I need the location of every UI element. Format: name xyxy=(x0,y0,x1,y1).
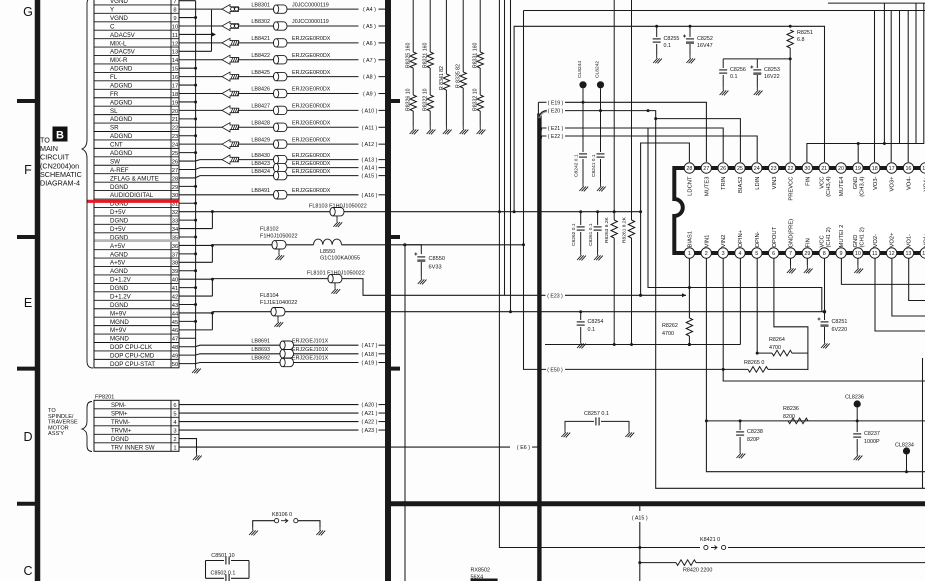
svg-text:G: G xyxy=(23,5,33,19)
ground (C8253) xyxy=(754,87,763,95)
svg-text:LB8693: LB8693 xyxy=(251,347,270,353)
svg-text:C8257 0.1: C8257 0.1 xyxy=(584,411,609,417)
ground (C8550) xyxy=(418,276,427,284)
svg-text:18: 18 xyxy=(172,92,178,98)
wire M+9V feeder from top xyxy=(509,0,512,313)
svg-text:0.1: 0.1 xyxy=(664,43,672,49)
resistor R8331 xyxy=(473,0,484,68)
ground (C8261) xyxy=(594,252,603,260)
svg-text:BIAS2: BIAS2 xyxy=(738,177,744,193)
ground (R8335) xyxy=(460,126,469,134)
svg-text:(CH1 2): (CH1 2) xyxy=(826,227,832,247)
svg-text:DGND: DGND xyxy=(110,285,129,292)
svg-text:42: 42 xyxy=(172,294,178,300)
svg-text:41: 41 xyxy=(172,286,178,292)
svg-text:VGND: VGND xyxy=(110,15,128,22)
svg-text:R8322 10: R8322 10 xyxy=(423,88,429,111)
svg-text:SL: SL xyxy=(110,108,118,115)
U8201 pin 10 (GND (CH1 2)) xyxy=(853,227,866,258)
ground (C8262) xyxy=(577,252,586,260)
wire FP8201 pin 4 to node A22 xyxy=(179,420,388,426)
svg-text:( A20 ): ( A20 ) xyxy=(362,403,378,409)
svg-text:8200: 8200 xyxy=(783,414,795,420)
wire pin 1 riser / R8262 branch xyxy=(688,258,690,318)
svg-text:TRVM+: TRVM+ xyxy=(111,428,132,434)
svg-text:16V22: 16V22 xyxy=(764,74,780,80)
U8201 pin 14 (VO1+) xyxy=(920,232,925,258)
ground (C8254) xyxy=(577,340,586,348)
svg-text:DGND: DGND xyxy=(110,302,129,309)
svg-text:R8321 160: R8321 160 xyxy=(423,43,429,68)
node A9 xyxy=(363,92,388,98)
ground (R8326) xyxy=(410,126,419,134)
svg-text:C8251: C8251 xyxy=(832,319,848,325)
U8201 pin 19 (GND (CH3,4)) xyxy=(853,163,866,197)
filter FL8104 xyxy=(212,293,510,327)
wire pin 5 riser xyxy=(756,258,759,354)
svg-text:4700: 4700 xyxy=(662,331,674,337)
node A18 xyxy=(362,352,388,358)
ferrite bead LB8301 xyxy=(179,2,359,13)
resistor R8325 xyxy=(406,0,417,68)
node A19 xyxy=(362,361,388,367)
filter FL8101 xyxy=(212,271,545,296)
wire FP8201 pin 3 to node A23 xyxy=(179,428,388,434)
wire power pair pins 32,34 xyxy=(179,210,214,228)
ground (C8237) xyxy=(854,452,863,460)
wire E20 branch loop xyxy=(648,128,822,312)
node A10 xyxy=(362,108,388,114)
net label A15 vertical xyxy=(632,504,648,581)
wire riser pin 16 xyxy=(907,11,909,163)
ferrite bead LB8430 xyxy=(179,153,359,164)
svg-text:TRIN: TRIN xyxy=(721,177,727,191)
svg-text:2: 2 xyxy=(173,437,176,443)
ground (K8106 left) xyxy=(249,527,258,535)
svg-text:LB8302: LB8302 xyxy=(251,19,270,25)
U8201 pin 20 (MUTE4) xyxy=(836,163,846,196)
svg-text:ERJ2GE0R0DX: ERJ2GE0R0DX xyxy=(292,188,331,194)
svg-text:ADGND: ADGND xyxy=(110,82,133,89)
test point CL8234 xyxy=(895,358,923,488)
ground (IC pin) xyxy=(787,258,796,273)
svg-text:5: 5 xyxy=(173,411,176,417)
svg-text:R8332 10: R8332 10 xyxy=(473,88,479,111)
svg-text:FIN: FIN xyxy=(805,177,811,186)
ground (C8255) xyxy=(653,55,662,63)
ferrite bead LB8424 xyxy=(179,169,359,180)
svg-text:( A6 ): ( A6 ) xyxy=(363,41,376,47)
ferrite bead LB8692 xyxy=(179,356,359,367)
svg-text:( A10 ): ( A10 ) xyxy=(362,108,378,114)
wire E22 to pin 24 xyxy=(565,136,757,162)
svg-text:8: 8 xyxy=(173,8,176,14)
svg-text:R8251: R8251 xyxy=(797,30,813,36)
svg-text:49: 49 xyxy=(172,354,178,360)
label TO SPINDLE/TRAVERSE MOTOR ASSY xyxy=(48,408,78,437)
svg-text:26: 26 xyxy=(720,166,726,172)
svg-text:D+5V: D+5V xyxy=(110,209,127,216)
svg-text:R8331 160: R8331 160 xyxy=(473,43,479,68)
svg-text:DIAGRAM-4: DIAGRAM-4 xyxy=(40,179,80,188)
svg-text:ERJ2GEJ101X: ERJ2GEJ101X xyxy=(292,356,329,362)
svg-text:R8326 10: R8326 10 xyxy=(406,88,412,111)
svg-text:19: 19 xyxy=(172,100,178,106)
wire E21 to pin 26 xyxy=(565,128,723,162)
svg-text:C8502 0.1: C8502 0.1 xyxy=(211,571,236,577)
ground (IC pin) xyxy=(804,258,813,273)
svg-text:ERJ2GE0R0DX: ERJ2GE0R0DX xyxy=(292,169,331,175)
svg-text:CL8244: CL8244 xyxy=(577,61,583,78)
svg-text:6V33: 6V33 xyxy=(429,265,442,271)
svg-text:23: 23 xyxy=(771,166,777,172)
svg-text:6V220: 6V220 xyxy=(832,327,848,333)
svg-text:CL8234: CL8234 xyxy=(895,443,914,449)
wire pin 3 riser xyxy=(722,258,925,381)
wire D+5V drop to K8421 line xyxy=(498,0,925,548)
U8201 pin 11 (VO2-) xyxy=(870,234,880,258)
wire left bottom vertical xyxy=(404,245,406,581)
svg-text:C8237: C8237 xyxy=(864,431,880,437)
svg-text:SR: SR xyxy=(110,125,119,132)
svg-text:FL8101 F1H0J1050022: FL8101 F1H0J1050022 xyxy=(307,271,365,277)
capacitor C8257 xyxy=(565,411,629,429)
svg-text:BIAS1: BIAS1 xyxy=(688,231,694,247)
svg-text:D+5V: D+5V xyxy=(110,226,127,233)
svg-text:ADGND: ADGND xyxy=(110,150,133,157)
svg-text:AGND: AGND xyxy=(110,268,128,275)
svg-text:MGND: MGND xyxy=(110,319,129,326)
svg-text:DOP CPU-CLK: DOP CPU-CLK xyxy=(110,344,153,351)
svg-text:1000P: 1000P xyxy=(864,439,880,445)
test point CL8236 xyxy=(845,395,864,421)
svg-text:MIX-R: MIX-R xyxy=(110,57,128,64)
svg-text:( E19 ): ( E19 ) xyxy=(548,100,564,106)
svg-text:( A23 ): ( A23 ) xyxy=(362,428,378,434)
ground (C8251) xyxy=(821,340,830,348)
wire A+5V / E50 drop xyxy=(522,11,546,370)
node E22 xyxy=(542,134,564,140)
wire ADAC5V pair pins 11,13 xyxy=(179,10,216,52)
wire FP8201 pin 5 to node A21 xyxy=(179,411,388,417)
svg-text:ADGND: ADGND xyxy=(110,99,133,106)
ground (C8242) xyxy=(579,183,588,191)
U8201 pin 5 (OPIN-) xyxy=(752,231,762,258)
svg-text:11: 11 xyxy=(872,251,878,257)
ferrite bead LB8421 xyxy=(179,36,359,47)
ferrite bead LB8691 xyxy=(179,338,359,349)
ground (C8256) xyxy=(720,87,729,95)
svg-text:13: 13 xyxy=(172,50,178,56)
svg-text:40: 40 xyxy=(172,278,178,284)
svg-text:46: 46 xyxy=(172,328,178,334)
svg-text:DGND: DGND xyxy=(110,184,129,191)
U8201 pin 30 (FIN) xyxy=(802,163,812,186)
test point CL8244 xyxy=(577,61,587,103)
svg-text:38: 38 xyxy=(172,261,178,267)
ferrite bead LB8427 xyxy=(179,104,359,115)
svg-text:27: 27 xyxy=(703,166,709,172)
U8201 pin 18 (VO3-) xyxy=(870,163,880,190)
wire C8256/C8253 rail xyxy=(723,58,790,60)
svg-text:8: 8 xyxy=(823,251,826,257)
svg-text:( A7 ): ( A7 ) xyxy=(363,58,376,64)
svg-text:MUTE4: MUTE4 xyxy=(839,176,845,196)
svg-text:( A19 ): ( A19 ) xyxy=(362,361,378,367)
svg-text:K8106 0: K8106 0 xyxy=(272,512,292,518)
wire top rail 2 xyxy=(524,10,925,12)
wire M+9V rail to VCC xyxy=(511,310,827,313)
svg-text:DOP CPU-STAT: DOP CPU-STAT xyxy=(110,361,155,368)
wire pin 11 riser xyxy=(875,258,925,331)
node E21 xyxy=(542,126,564,132)
wire bias network rail xyxy=(514,143,689,297)
resistor R8236 xyxy=(783,406,808,424)
svg-text:10: 10 xyxy=(172,24,178,30)
resistor R8264 xyxy=(757,337,808,356)
svg-text:E: E xyxy=(24,296,32,310)
svg-text:17: 17 xyxy=(889,166,895,172)
svg-text:C8501 10: C8501 10 xyxy=(211,553,234,559)
svg-text:TRVM-: TRVM- xyxy=(111,420,130,426)
svg-text:(CH1 2): (CH1 2) xyxy=(860,227,866,247)
svg-text:LB8430: LB8430 xyxy=(251,153,270,159)
svg-text:3: 3 xyxy=(173,428,176,434)
wire power pair pins 40,42 xyxy=(179,278,214,296)
resistor R8332 xyxy=(473,68,484,126)
svg-text:K8421 0: K8421 0 xyxy=(700,537,720,543)
svg-text:MUTE3: MUTE3 xyxy=(704,177,710,197)
svg-text:44: 44 xyxy=(172,311,179,317)
node A6 xyxy=(363,41,388,47)
svg-text:50: 50 xyxy=(172,362,178,368)
ground (C8257 right) xyxy=(625,429,634,437)
svg-text:DOP CPU-CMD: DOP CPU-CMD xyxy=(110,353,155,360)
svg-text:( E22 ): ( E22 ) xyxy=(548,134,564,140)
svg-text:VIN1: VIN1 xyxy=(704,235,710,248)
svg-text:7: 7 xyxy=(173,0,176,5)
wire E23 line to pin 1 riser xyxy=(565,293,686,297)
svg-text:VO1-: VO1- xyxy=(907,234,913,248)
svg-text:43: 43 xyxy=(172,303,178,309)
svg-text:R 8341 82: R 8341 82 xyxy=(439,66,445,90)
svg-text:ERJ2GE0R0DX: ERJ2GE0R0DX xyxy=(292,104,331,110)
svg-text:ADGND: ADGND xyxy=(110,133,133,140)
svg-text:27: 27 xyxy=(172,168,178,174)
svg-text:VO4-: VO4- xyxy=(907,176,913,190)
ground (R8322) xyxy=(427,126,436,134)
svg-text:LB8426: LB8426 xyxy=(251,87,270,93)
svg-text:9: 9 xyxy=(173,16,176,22)
svg-text:M+9V: M+9V xyxy=(110,310,127,317)
svg-text:ERJ2GE0R0DX: ERJ2GE0R0DX xyxy=(292,120,331,126)
wire FP8201 DGND pin 2 xyxy=(179,439,197,452)
capacitor C8251 xyxy=(818,312,848,340)
svg-text:ADAC5V: ADAC5V xyxy=(110,32,136,39)
svg-text:VCC: VCC xyxy=(819,235,825,247)
thick bus line bottom xyxy=(386,501,925,506)
svg-text:C8256: C8256 xyxy=(730,67,746,73)
svg-text:13: 13 xyxy=(905,251,911,257)
svg-text:( E20 ): ( E20 ) xyxy=(548,109,564,115)
svg-text:AUDIODIGITAL: AUDIODIGITAL xyxy=(110,192,154,199)
svg-text:LDCNT: LDCNT xyxy=(688,176,694,196)
svg-text:DGND: DGND xyxy=(111,437,129,443)
svg-text:( A9 ): ( A9 ) xyxy=(363,92,376,98)
wire power pair pins 36,38 xyxy=(179,244,214,262)
node A16 xyxy=(362,193,388,199)
svg-text:( A14 ): ( A14 ) xyxy=(362,166,378,172)
svg-text:0.1: 0.1 xyxy=(730,74,738,80)
resistor R8251 xyxy=(787,30,813,162)
svg-text:( E50 ): ( E50 ) xyxy=(547,367,563,373)
wire R8236 rail xyxy=(705,419,925,422)
node A5 xyxy=(363,24,388,30)
svg-text:25: 25 xyxy=(172,151,178,157)
jumper K8421 xyxy=(700,537,728,552)
ground (IC pin) xyxy=(854,258,863,273)
svg-text:D+1.2V: D+1.2V xyxy=(110,293,132,300)
svg-text:F1H0J1050022: F1H0J1050022 xyxy=(260,233,298,239)
svg-text:16: 16 xyxy=(172,75,178,81)
svg-text:OPIN+: OPIN+ xyxy=(738,229,744,247)
svg-text:VCC: VCC xyxy=(819,177,825,189)
node E6 xyxy=(517,445,538,451)
connector FP8201 table xyxy=(82,394,179,451)
svg-text:6: 6 xyxy=(173,403,176,409)
svg-text:( A17 ): ( A17 ) xyxy=(362,343,378,349)
wire E19 to pin 27 xyxy=(565,101,706,162)
capacitor C8501 xyxy=(206,553,250,565)
svg-text:J0JCC0000119: J0JCC0000119 xyxy=(292,2,329,8)
capacitor C8256 xyxy=(719,59,746,87)
svg-text:ADGND: ADGND xyxy=(110,116,133,123)
filter FL8103 xyxy=(212,204,514,228)
ferrite bead LB8491 xyxy=(179,188,359,199)
svg-text:( A11 ): ( A11 ) xyxy=(362,125,378,131)
svg-text:12: 12 xyxy=(889,251,895,257)
svg-text:9: 9 xyxy=(840,251,843,257)
svg-text:VIN3: VIN3 xyxy=(772,177,778,190)
svg-text:A+5V: A+5V xyxy=(110,260,126,267)
connector CN2004 table xyxy=(94,0,179,368)
svg-text:14: 14 xyxy=(172,58,179,64)
svg-text:C8252: C8252 xyxy=(697,36,713,42)
svg-text:22: 22 xyxy=(788,166,794,172)
svg-text:MUTEI 2: MUTEI 2 xyxy=(839,225,845,248)
svg-text:45: 45 xyxy=(172,320,178,326)
U8201 pin 21 (VCC (CH3,4)) xyxy=(819,163,832,197)
node A14 xyxy=(362,166,388,172)
svg-text:ERJ2GEJ101X: ERJ2GEJ101X xyxy=(292,347,329,353)
svg-text:5: 5 xyxy=(755,251,758,257)
ferrite bead LB8428 xyxy=(179,120,359,131)
svg-text:A+5V: A+5V xyxy=(110,243,126,250)
svg-text:6.8: 6.8 xyxy=(797,37,805,43)
resistor R8335 xyxy=(456,0,467,126)
node A4 xyxy=(363,7,388,13)
resistor R8326 xyxy=(406,68,417,126)
U8201 pin 17 (VO3+) xyxy=(886,163,896,192)
svg-text:24: 24 xyxy=(754,166,760,172)
svg-text:LB8429: LB8429 xyxy=(251,137,270,143)
svg-text:12: 12 xyxy=(172,41,178,47)
svg-text:GND(PRE): GND(PRE) xyxy=(789,219,795,248)
svg-text:R8264: R8264 xyxy=(769,337,785,343)
svg-text:820P: 820P xyxy=(747,437,760,443)
svg-text:3: 3 xyxy=(722,251,725,257)
svg-text:( E6 ): ( E6 ) xyxy=(517,445,530,451)
svg-text:ASS'Y: ASS'Y xyxy=(48,431,64,437)
ferrite bead LB8693 xyxy=(179,347,359,358)
ground (connector bus) xyxy=(192,365,201,373)
ground (C8241) xyxy=(597,183,606,191)
op-amp / power IC U8201 body xyxy=(674,168,925,253)
svg-text:OPIN-: OPIN- xyxy=(755,231,761,247)
svg-text:20: 20 xyxy=(172,109,178,115)
ground (K8106 right) xyxy=(316,527,325,535)
svg-text:C: C xyxy=(110,23,115,30)
wire pin 2 riser to CL8234 rail xyxy=(706,258,925,472)
resistor R8420 xyxy=(640,560,925,574)
svg-text:17: 17 xyxy=(172,83,178,89)
svg-text:LB8692: LB8692 xyxy=(251,356,270,362)
U8201 pin 29 (FIN) xyxy=(802,238,812,258)
capacitor C8253 xyxy=(750,59,780,87)
svg-text:GND: GND xyxy=(853,235,859,248)
svg-text:LB8424: LB8424 xyxy=(251,169,270,175)
svg-text:11: 11 xyxy=(172,33,178,39)
highlight gray line (A+5V) xyxy=(95,239,180,242)
svg-text:C8550: C8550 xyxy=(429,256,445,262)
svg-text:VO3-: VO3- xyxy=(873,176,879,190)
svg-text:LDIN: LDIN xyxy=(755,177,761,190)
svg-text:0.1: 0.1 xyxy=(588,327,596,333)
svg-text:C8255: C8255 xyxy=(664,36,680,42)
U8201 pin 15 (VO4+) xyxy=(920,163,925,192)
U8201 pin 9 (MUTEI 2) xyxy=(836,225,846,259)
node A15 xyxy=(362,174,388,180)
svg-text:PREVCC: PREVCC xyxy=(789,177,795,201)
ground (R8341) xyxy=(443,126,452,134)
filter FL8102 xyxy=(212,227,313,261)
svg-text:26: 26 xyxy=(172,159,178,165)
svg-text:MIX-L: MIX-L xyxy=(110,40,127,47)
svg-text:C8242 0.1: C8242 0.1 xyxy=(574,154,580,177)
thick vertical bus xyxy=(539,111,547,581)
node A17 xyxy=(362,343,388,349)
U8201 pin 4 (OPIN+) xyxy=(735,229,745,258)
right frame bar xyxy=(388,0,400,581)
svg-text:23: 23 xyxy=(172,134,178,140)
svg-text:29: 29 xyxy=(804,251,810,257)
svg-text:CNT: CNT xyxy=(110,142,123,149)
svg-text:R 8335 82: R 8335 82 xyxy=(456,64,462,88)
svg-text:30: 30 xyxy=(172,193,178,199)
svg-text:VO3+: VO3+ xyxy=(890,176,896,192)
svg-text:1: 1 xyxy=(173,445,176,451)
svg-text:4: 4 xyxy=(738,251,741,257)
svg-text:21: 21 xyxy=(172,117,178,123)
wire E50 to R8265 xyxy=(565,368,748,370)
capacitor C8254 xyxy=(577,312,604,340)
U8201 pin 13 (VO1-) xyxy=(903,234,913,258)
node A8 xyxy=(363,75,388,81)
svg-text:G1C100KA0055: G1C100KA0055 xyxy=(320,256,360,262)
ferrite bead LB8422 xyxy=(179,53,359,64)
resistor R8341 xyxy=(439,0,450,126)
svg-text:ERJ2GE0R0DX: ERJ2GE0R0DX xyxy=(292,87,331,93)
